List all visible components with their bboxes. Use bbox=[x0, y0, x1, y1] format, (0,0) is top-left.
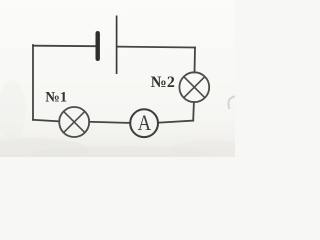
ammeter A1 circle bbox=[130, 109, 158, 137]
lamp L2 (№2) cross bbox=[184, 77, 205, 98]
lamp L2 (№2) circle bbox=[179, 72, 209, 102]
svg-text:№2: №2 bbox=[151, 74, 175, 91]
paper background bbox=[0, 0, 235, 157]
wire: bottom middle segment bbox=[89, 122, 130, 123]
wire: top-right horizontal segment bbox=[117, 46, 195, 49]
battery cell B1: long thin plate (positive) bbox=[116, 16, 118, 75]
faint smudge at right edge bbox=[228, 97, 235, 110]
wire: bottom-left horizontal segment bbox=[33, 120, 59, 122]
lamp L1 (№1) cross bbox=[64, 111, 85, 132]
lamp L1 (№1) circle bbox=[59, 107, 89, 137]
wire: bottom-right horizontal segment bbox=[158, 121, 193, 123]
svg-text:A: A bbox=[138, 111, 151, 135]
wire: left vertical segment bbox=[32, 45, 34, 120]
svg-text:№1: №1 bbox=[45, 89, 67, 105]
wire: right vertical lower segment bbox=[192, 102, 195, 121]
wire: top-left horizontal segment bbox=[33, 45, 95, 48]
battery cell B1: short thick plate (negative) bbox=[95, 33, 99, 59]
wire: right vertical upper segment bbox=[194, 48, 197, 73]
